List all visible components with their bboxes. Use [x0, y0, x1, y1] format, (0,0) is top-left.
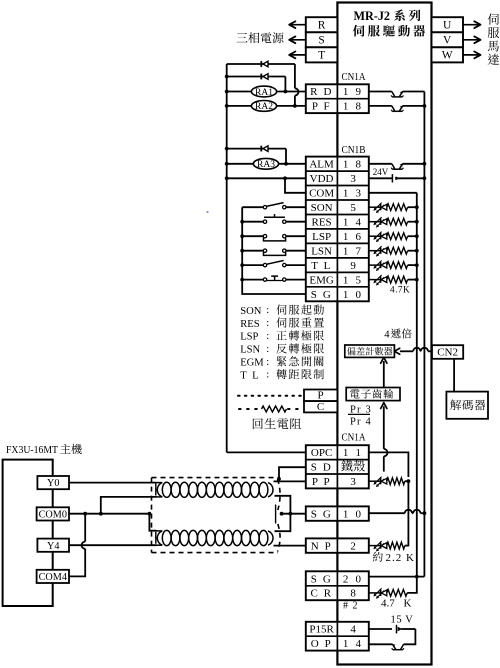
svg-text:1 1: 1 1 — [343, 447, 363, 459]
svg-text:EGM: EGM — [240, 358, 264, 369]
svg-text:COM: COM — [309, 188, 334, 200]
output transistor OP — [369, 643, 393, 645]
svg-text:MR-J2: MR-J2 — [354, 9, 391, 23]
CN1A bottom table OPC SD PP — [306, 445, 369, 488]
svg-text:CN1B: CN1B — [342, 144, 366, 156]
P15R OP table — [306, 622, 369, 651]
svg-text:C: C — [317, 401, 324, 413]
terminal T — [306, 47, 338, 62]
svg-text:CN2: CN2 — [437, 347, 458, 359]
optocoupler input RES — [369, 221, 381, 223]
wire arrow into T — [289, 54, 306, 56]
svg-text:S D: S D — [311, 462, 333, 474]
svg-text:2.2 K: 2.2 K — [386, 552, 415, 564]
svg-text:2: 2 — [350, 540, 356, 552]
svg-text:LSN: LSN — [311, 245, 332, 257]
diode D2 — [227, 76, 286, 78]
wire pair1 return down to SG — [275, 496, 291, 514]
pulse line from PP opto up to gear with hop over OPC line — [383, 456, 385, 471]
svg-text:P F: P F — [312, 101, 331, 113]
svg-text:COM4: COM4 — [39, 572, 67, 583]
wire pair1 signal to PP — [274, 480, 306, 482]
diode D3 — [225, 147, 229, 151]
wire arrow out of U — [463, 24, 481, 26]
title servo driver — [353, 25, 425, 37]
encoder feedback line CN2 to counter — [428, 350, 432, 352]
optocoupler input CR with 4.7K — [369, 592, 381, 594]
wire gear to counter with up arrow — [383, 361, 385, 388]
optocoupler input LSP — [369, 235, 381, 237]
svg-text:OPC: OPC — [311, 447, 332, 459]
svg-text:LSP: LSP — [312, 231, 331, 243]
svg-text:ALM: ALM — [309, 159, 334, 171]
svg-text:U: U — [443, 20, 452, 32]
terminal C — [304, 401, 337, 412]
svg-text:1 8: 1 8 — [343, 159, 363, 171]
PLC FX3U-16MT box — [3, 460, 53, 606]
svg-text:1 3: 1 3 — [343, 188, 363, 200]
output transistor RD — [369, 91, 392, 93]
terminal Y0 — [37, 476, 69, 489]
svg-text:N P: N P — [311, 540, 333, 552]
wire COM0 main — [69, 513, 149, 515]
switch LSP (NC limit) — [240, 234, 244, 238]
pulse opto supply vertical — [407, 481, 409, 546]
svg-text:1 8: 1 8 — [343, 101, 363, 113]
svg-text:Pr 4: Pr 4 — [350, 417, 372, 428]
svg-text:SON: SON — [311, 202, 333, 214]
wire D2 down to RD line — [284, 77, 286, 92]
svg-text:1 7: 1 7 — [343, 245, 363, 257]
svg-text:4: 4 — [384, 330, 390, 341]
svg-text:15 V: 15 V — [391, 614, 414, 625]
terminal W — [432, 47, 464, 62]
electronic gear box — [346, 388, 400, 401]
svg-text:4: 4 — [350, 624, 356, 636]
wire COM0 branch up to pair1 return — [101, 497, 157, 514]
svg-text::: : — [266, 344, 269, 355]
svg-text:1 5: 1 5 — [343, 274, 363, 286]
opto common bus vertical — [416, 193, 418, 577]
svg-text:T L: T L — [240, 370, 260, 381]
label regenerative resistor — [253, 418, 301, 429]
svg-text:FX3U-16MT: FX3U-16MT — [6, 444, 58, 456]
terminal R — [306, 17, 338, 32]
svg-text:LSN: LSN — [240, 345, 260, 356]
svg-text:CN1A: CN1A — [342, 71, 366, 83]
wire battery to transistor collector — [404, 629, 416, 644]
svg-text:S G: S G — [311, 289, 333, 301]
wire arrow out of W — [463, 54, 481, 56]
label servo motor (vertical) — [488, 13, 499, 24]
connector CN2 box — [432, 345, 463, 359]
servo drive unit MR-J2 outline — [337, 3, 431, 665]
wire arrow into S — [289, 39, 306, 41]
svg-text:S G: S G — [311, 508, 333, 520]
wire COM0 to COM4 with hop over Y4 — [84, 514, 86, 542]
svg-text:1 0: 1 0 — [343, 508, 363, 520]
wire Y4 to pair2 — [69, 544, 157, 546]
svg-text::: : — [266, 370, 269, 381]
svg-text:3: 3 — [350, 173, 356, 185]
wire SG20 to buses junction — [369, 576, 425, 578]
svg-text:5: 5 — [350, 202, 356, 214]
output transistor ALM — [369, 163, 392, 165]
wire arrow out of V — [463, 39, 481, 41]
terminal Y4 — [37, 539, 69, 552]
svg-text:RES: RES — [312, 217, 332, 229]
svg-text:V: V — [443, 35, 452, 47]
optocoupler input SON — [369, 206, 381, 208]
svg-text:1 4: 1 4 — [343, 638, 363, 650]
wire COM to opto bus — [369, 192, 417, 194]
svg-text:1 4: 1 4 — [343, 217, 363, 229]
svg-text:C R: C R — [310, 588, 332, 600]
wire arrow into R — [289, 24, 306, 26]
24V battery on VDD line — [369, 177, 392, 179]
wire pair1 shield to SD — [279, 467, 306, 479]
svg-text:8: 8 — [350, 588, 356, 600]
decoder box — [446, 392, 488, 419]
svg-text:1 6: 1 6 — [343, 231, 363, 243]
svg-text:Y4: Y4 — [47, 541, 59, 552]
svg-text:4.7K: 4.7K — [390, 285, 410, 295]
switch TL (NO blade) — [240, 263, 244, 267]
svg-text:RES: RES — [240, 319, 260, 330]
optocoupler input LSN — [369, 250, 381, 252]
terminal V — [432, 32, 464, 47]
svg-text:R: R — [318, 20, 326, 32]
terminal S — [306, 32, 338, 47]
wire pair2 signal to NP — [274, 545, 306, 547]
shield end marks — [155, 484, 157, 496]
wire D3 down to ALM line — [285, 149, 287, 164]
twisted pair 2 (COM0/Y4 to SG/NP) — [157, 531, 162, 545]
wire COM0 down to pair2 return — [149, 514, 156, 531]
optocoupler input NP — [369, 545, 381, 547]
CN1A terminal table RD PF — [306, 84, 369, 113]
svg-text:4.7: 4.7 — [381, 598, 395, 610]
svg-text:S: S — [318, 35, 324, 47]
svg-text:P: P — [317, 389, 323, 401]
terminal SG 10 — [306, 506, 369, 520]
wire SG10 to output bus with hops — [369, 512, 405, 514]
relay coil RA3 — [225, 162, 229, 166]
SG20 CR8 table — [306, 571, 369, 600]
15V battery on P15R line — [369, 628, 392, 630]
svg-text:S G: S G — [311, 573, 333, 585]
optocoupler input EMG — [369, 279, 381, 281]
CN1B terminal table — [306, 157, 369, 302]
svg-text:2 0: 2 0 — [343, 573, 363, 585]
svg-text:# 2: # 2 — [343, 601, 359, 612]
svg-text:K: K — [404, 598, 412, 610]
svg-text::: : — [266, 331, 269, 342]
terminal P — [304, 390, 337, 402]
wire VDD-COM jumper — [283, 176, 287, 180]
twisted pair 1 (Y0/COM0 to PP/SG) — [157, 483, 162, 497]
diode D1 — [227, 63, 295, 65]
switch RES (pushbutton NO) — [240, 220, 244, 224]
svg-text:CN1A: CN1A — [342, 431, 366, 443]
terminal U — [432, 17, 464, 32]
wire pair2 return up to SG — [275, 514, 291, 532]
svg-text:SON: SON — [240, 306, 262, 317]
relay coil RA1 — [225, 90, 229, 94]
svg-text:RA2: RA2 — [255, 102, 273, 112]
optocoupler input TL — [369, 264, 381, 266]
svg-text:3: 3 — [350, 476, 356, 488]
terminal COM0 — [37, 507, 69, 520]
stray scan dot — [206, 211, 208, 213]
terminal COM4 — [37, 570, 69, 583]
svg-text:P15R: P15R — [309, 624, 334, 636]
svg-text::: : — [266, 357, 269, 368]
regenerative resistor dashed wire P side — [238, 395, 302, 397]
svg-text:24V: 24V — [373, 167, 389, 177]
svg-text:9: 9 — [350, 260, 356, 272]
svg-text:T L: T L — [311, 260, 332, 272]
svg-text:COM0: COM0 — [39, 510, 67, 521]
svg-text:RA3: RA3 — [257, 160, 275, 170]
relay coil RA2 — [225, 104, 229, 108]
svg-text::: : — [266, 318, 269, 329]
wire OPC to pulse opto supply with hop — [369, 452, 409, 477]
svg-text:VDD: VDD — [310, 173, 334, 185]
wire VDD to rail — [225, 176, 229, 180]
deviation counter box — [345, 345, 395, 357]
output common bus vertical — [423, 92, 425, 577]
regenerative resistor dashed wire C side with resistor — [239, 408, 260, 410]
svg-text:EMG: EMG — [309, 274, 334, 286]
svg-text:O P: O P — [311, 638, 333, 650]
svg-text:1 9: 1 9 — [343, 86, 363, 98]
svg-text:RA1: RA1 — [255, 88, 273, 98]
switch LSN (NC limit) — [240, 249, 244, 253]
svg-text:W: W — [442, 50, 453, 62]
shield dashed outline — [152, 478, 281, 553]
wire CN2 to decoder — [453, 359, 455, 392]
wire Y0 to pair1 — [69, 482, 157, 484]
svg-text:R D: R D — [310, 86, 333, 98]
svg-text:T: T — [318, 50, 325, 62]
terminal NP 2 — [306, 538, 369, 552]
svg-text:1 0: 1 0 — [343, 289, 363, 301]
label approx 2.2K — [373, 552, 383, 562]
wire D1 to PF line with hop over RD line — [294, 64, 296, 88]
wire SG row — [280, 512, 284, 516]
VDD supply rail (left vertical) — [226, 64, 228, 452]
wire VDD rail to OPC — [227, 451, 306, 453]
output transistor PF — [369, 105, 392, 107]
optocoupler input PP — [369, 480, 381, 482]
label three-phase power — [236, 32, 283, 43]
switch common rail — [242, 207, 306, 294]
svg-text:Y0: Y0 — [47, 478, 59, 489]
svg-text:LSP: LSP — [240, 332, 258, 343]
switch SON (NO blade) — [242, 206, 263, 208]
svg-text:P P: P P — [312, 476, 331, 488]
svg-text::: : — [266, 305, 269, 316]
switch EMG (NC pushbutton) — [240, 278, 244, 282]
